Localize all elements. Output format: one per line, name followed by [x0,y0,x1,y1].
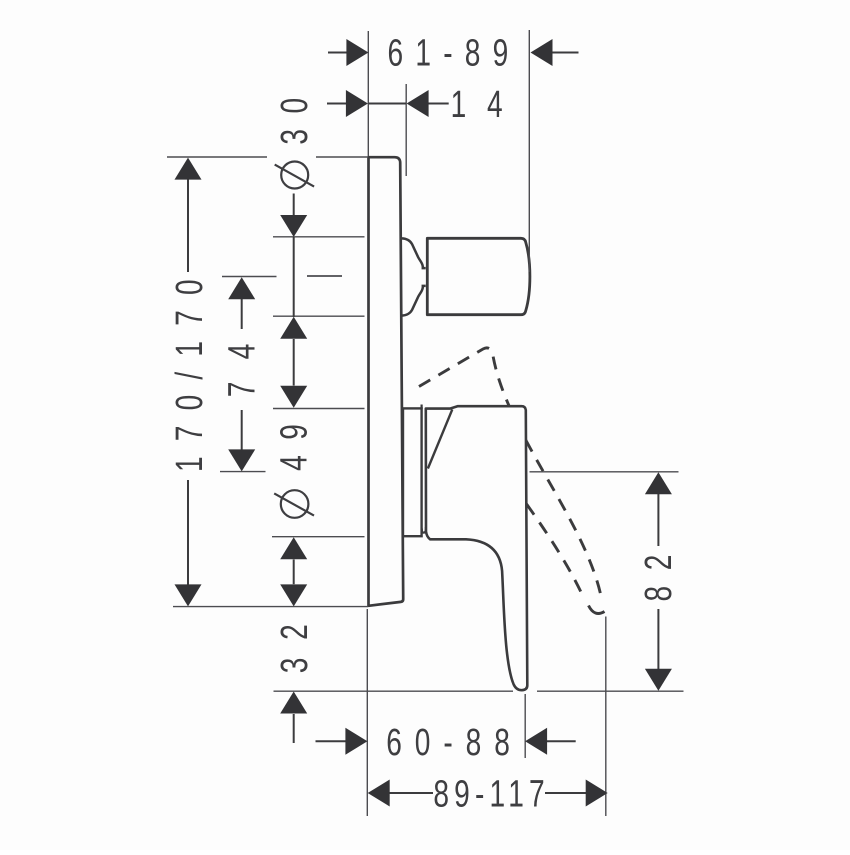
82 arrows [645,472,672,494]
label 170/170 [169,264,211,472]
extension line knob face, 61-89 right [528,30,530,272]
label 32 [274,607,316,674]
dashed lever open position: inner edge [527,504,584,598]
svg-text:14: 14 [451,84,524,126]
dim 61-89 [328,52,347,54]
extension line lever tip, 60-88 right [524,694,526,758]
extension line lever tip level / 32 and 82 bottom (right part) [537,690,684,692]
lever handle body [426,406,528,690]
dim 89-117 [389,792,433,794]
label dia 30 digits [274,82,316,144]
89-117 arrows [368,780,390,807]
dim 60-88 [316,740,347,742]
svg-text:82: 82 [638,539,680,601]
extension line knob bottom dia30 [273,315,365,317]
arrowheads [175,39,672,807]
svg-text:170/170: 170/170 [169,264,211,472]
extension line plate front bottom, 60-88 and 89-117 left [366,609,368,816]
extension line lever tip level / 32 and 82 bottom (left part) [274,690,514,692]
extension line plate top / 170-170 top (left part) [167,156,267,158]
dashed lever open position: rounded tip [589,606,605,614]
svg-text:89-117: 89-117 [433,774,550,816]
svg-text:30: 30 [274,82,316,144]
label dia 49 digits [274,409,316,471]
dia49 arrows [280,386,307,408]
extension line plate bottom / 32 top [173,606,368,608]
lever sleeve (rosette, dia 49) [403,408,422,536]
extension line knob top dia30 [273,236,365,238]
extension line knob axis / 74 top [222,276,277,278]
label 61-89 [388,33,521,75]
extension line plate top / 170-170 top (right part) [316,156,368,158]
dashed lever open position: outer edge and corner [419,348,605,614]
dimension lines [188,53,658,794]
extension line sleeve bottom dia49 [272,536,365,538]
svg-text:60-88: 60-88 [386,722,523,764]
extension line lever axis / 74 bottom [220,471,266,473]
74 arrows [228,277,255,299]
dim 170/170 [187,179,189,272]
label 82 [638,539,680,601]
extension line plate back, 14 right [405,84,407,176]
knob (top handle side view) [427,238,530,314]
extension line lever axis / 82 top [530,471,679,473]
32 arrows [280,584,307,606]
knob neck (stem between plate and knob) [402,238,426,315]
lever hook at stem bottom [422,527,426,533]
dimension texts [169,33,680,816]
label 89-117 [433,774,550,816]
diameter symbol for 30 [274,162,314,518]
dia30 arrows [280,215,307,237]
plate (wall escutcheon side view) [369,157,404,606]
svg-text:32: 32 [274,607,316,674]
label 74 [222,322,264,398]
extension line plate front, 61-89 and 14 left [367,31,369,156]
14 arrows [346,90,368,117]
diameter symbol for 49 [281,490,309,518]
sleeve right edge upper tick [421,405,423,410]
dim chain dia30/dia49/32 [293,194,295,216]
extension line sleeve top dia49 [273,408,365,410]
dim 14 [327,103,348,105]
extension line open lever tip, 89-117 right [605,617,607,817]
label 14 [451,84,524,126]
label 60-88 [386,722,523,764]
170/170 arrows [175,158,202,180]
61-89 arrows [346,39,368,66]
svg-text:74: 74 [222,322,264,398]
lever interior diagonal line [428,409,452,468]
svg-text:61-89: 61-89 [388,33,521,75]
thin extension lines [167,30,684,816]
60-88 arrows [345,728,367,755]
svg-text:49: 49 [274,409,316,471]
centerline mark at knob axis [307,275,342,277]
dim 74 [241,299,243,329]
dim 82 [657,494,659,546]
